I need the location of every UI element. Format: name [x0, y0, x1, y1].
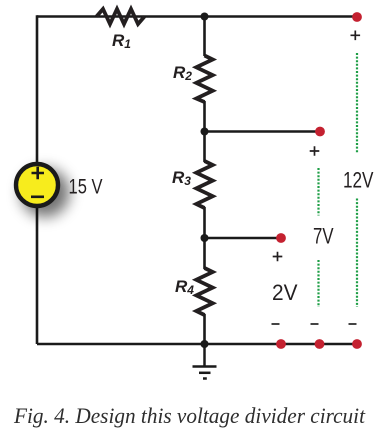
terminal red dot top (+12V): [352, 12, 362, 22]
plus mark 7V: [310, 146, 320, 156]
terminal red dot bottom 3: [352, 339, 362, 349]
svg-text:2V: 2V: [272, 280, 298, 305]
wire chain segment top: [203, 17, 206, 57]
minus mark 2V: [272, 323, 280, 325]
wire chain segment R4-bottom: [203, 314, 206, 344]
minus mark 12V: [349, 323, 357, 325]
junction node top: [201, 13, 209, 21]
wire tap node B to red terminal: [205, 130, 321, 133]
wire top horizontal: [37, 15, 357, 18]
wire bottom horizontal: [37, 343, 357, 346]
wire left vertical: [36, 15, 39, 344]
junction node C: [201, 234, 209, 242]
junction node B: [201, 128, 209, 136]
terminal red dot bottom 2: [315, 339, 325, 349]
resistor R3: [196, 161, 212, 208]
svg-text:12V: 12V: [343, 168, 374, 193]
junction node bottom: [201, 340, 209, 348]
svg-text:7V: 7V: [313, 224, 334, 249]
terminal red dot bottom 1: [276, 339, 286, 349]
wire chain segment R3-R4: [203, 207, 206, 269]
resistor R2: [196, 56, 212, 103]
source minus sign: [31, 196, 44, 199]
green dotted line 12V upper: [356, 53, 358, 153]
green dotted line 7V lower: [317, 260, 319, 307]
source shadow: [21, 168, 70, 217]
plus mark 12V: [351, 31, 361, 41]
green dotted line 12V lower: [356, 199, 358, 308]
wire chain segment R2-R3: [203, 101, 206, 162]
minus mark 7V: [311, 323, 319, 325]
svg-text:15 V: 15 V: [69, 176, 103, 199]
voltage source V1 15V: [16, 164, 58, 206]
svg-text:Fig. 4. Design this voltage d: Fig. 4. Design this voltage divider circ…: [13, 403, 366, 428]
plus mark 2V: [273, 252, 283, 262]
resistor R1: [97, 9, 145, 24]
ground: [193, 344, 217, 379]
terminal red dot 7V tap: [315, 127, 325, 137]
resistor R4: [196, 268, 212, 315]
source plus sign: [32, 167, 45, 180]
green dotted line 7V upper: [317, 168, 319, 216]
terminal red dot 2V tap: [276, 233, 286, 243]
wire tap node C to red terminal: [205, 237, 282, 240]
